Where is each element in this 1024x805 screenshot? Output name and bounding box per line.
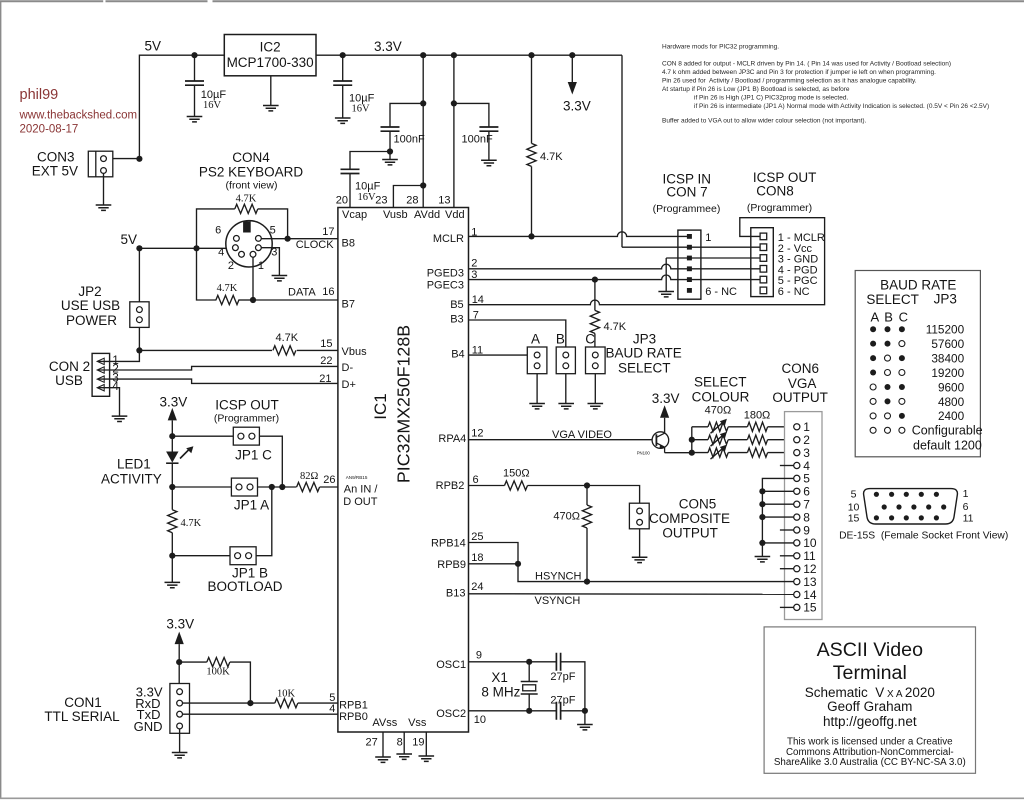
svg-text:(Programmer): (Programmer) — [214, 413, 279, 425]
svg-text:8: 8 — [397, 737, 403, 749]
node 3.3V colour label — [652, 391, 680, 406]
svg-text:MCLR: MCLR — [433, 233, 464, 245]
svg-text:IC1: IC1 — [371, 393, 390, 419]
label LED1 — [117, 456, 151, 471]
svg-text:4.7K: 4.7K — [540, 151, 563, 163]
svg-text:82Ω: 82Ω — [300, 471, 319, 482]
svg-text:X1: X1 — [491, 670, 508, 685]
svg-text:GND: GND — [134, 719, 163, 734]
pin label CON1 GND — [134, 719, 163, 734]
table label default 1200 — [913, 439, 982, 453]
pin label AVss 27 — [366, 717, 398, 749]
svg-text:www.thebackshed.com: www.thebackshed.com — [19, 110, 138, 122]
svg-text:PS2 KEYBOARD: PS2 KEYBOARD — [199, 165, 304, 180]
label EXT 5V — [32, 163, 78, 178]
label 4.7K JP3C — [604, 321, 627, 333]
pin number DIN 2 — [228, 260, 234, 272]
wire RxD — [183, 702, 251, 704]
ground PS2 — [272, 276, 288, 281]
label 4.7K data — [217, 283, 238, 294]
label Programmee — [653, 203, 721, 215]
junction 3.3V at MCLR pullup — [528, 52, 534, 58]
junction colour row3 — [689, 450, 695, 456]
pin number CON2-4 — [112, 381, 119, 393]
wire RPB14 hsync — [469, 543, 794, 582]
label CON 7 — [666, 184, 707, 199]
junction RxD — [247, 700, 253, 706]
ground JP3B — [558, 404, 574, 409]
label ACTIVITY — [101, 471, 162, 486]
wire to ground 100nF AVdd — [389, 152, 391, 160]
svg-text:10: 10 — [474, 714, 486, 726]
svg-text:POWER: POWER — [66, 313, 117, 328]
svg-text:B5: B5 — [450, 299, 463, 311]
svg-text:B4: B4 — [451, 349, 464, 361]
svg-text:CLOCK: CLOCK — [296, 239, 335, 251]
pin label B8 — [342, 238, 355, 250]
connector CON5 composite — [629, 503, 649, 529]
title license line1 — [787, 737, 953, 748]
svg-text:28: 28 — [406, 195, 418, 207]
wire JP1C to pin26 node — [259, 436, 282, 487]
ground Vss pin 8 — [396, 754, 412, 759]
ground CON2 — [112, 416, 128, 421]
pin label Vss 8 — [397, 717, 427, 749]
label 100K — [206, 667, 230, 678]
label 16V input — [203, 100, 222, 111]
wire CON2 pin4 ground — [98, 388, 120, 416]
wire DIN pin3 ground — [261, 248, 279, 276]
connector CON6 VGA pins — [794, 420, 817, 615]
label 16V output — [352, 104, 371, 115]
svg-text:CON3: CON3 — [37, 150, 75, 165]
junction VGA gnd 10 — [759, 540, 765, 546]
label 4.7K Vbus — [276, 332, 299, 344]
junction composite — [584, 482, 590, 488]
label 10uF Vcap — [355, 181, 381, 193]
svg-text:4.7K: 4.7K — [276, 332, 299, 344]
wire to JP1C — [172, 435, 233, 437]
svg-text:6: 6 — [803, 485, 810, 499]
wire CON2 pin1 to Vbus node — [98, 350, 139, 361]
pin label D+ 21 — [319, 373, 356, 391]
power 3.3V arrow colour — [660, 405, 669, 433]
label COLOUR — [692, 389, 750, 404]
pin label B7 — [342, 299, 355, 311]
table baud rows — [870, 323, 983, 438]
svg-text:4: 4 — [803, 459, 810, 473]
label CLOCK — [296, 239, 335, 251]
wire OSC2 — [469, 710, 557, 712]
wire B3 to JP3B — [469, 320, 566, 347]
svg-text:11: 11 — [963, 513, 974, 525]
pin label B5 14 — [450, 294, 484, 311]
pin number DE15 1 — [963, 488, 969, 500]
label PIC32MX250F128B (rotated) — [394, 325, 414, 483]
svg-text:100nF: 100nF — [394, 134, 425, 146]
svg-text:180Ω: 180Ω — [744, 410, 771, 422]
svg-text:JP3: JP3 — [934, 291, 957, 306]
resistor 4.7K MCLR pullup — [527, 55, 536, 236]
pin label B4 11 — [451, 345, 483, 361]
junction data — [250, 297, 256, 303]
junction 5V at input cap — [191, 52, 197, 58]
svg-text:27: 27 — [366, 737, 378, 749]
svg-text:4: 4 — [329, 703, 335, 715]
junction OSC1 — [526, 659, 532, 665]
svg-text:24: 24 — [471, 581, 483, 593]
svg-text:B8: B8 — [342, 238, 355, 250]
label TTL SERIAL — [44, 709, 120, 724]
wire OSC1 — [469, 661, 557, 663]
wire MCLR to CON7 — [469, 232, 688, 237]
label SELECT jp3 — [618, 361, 671, 376]
svg-text:PN100: PN100 — [637, 451, 651, 456]
ground output cap — [335, 118, 351, 123]
wire PGD to CON8 pin4 — [469, 264, 761, 269]
label HSYNCH — [535, 570, 582, 582]
svg-text:AN9/RB15: AN9/RB15 — [346, 475, 368, 480]
label PS2 KEYBOARD — [199, 165, 304, 180]
label OUTPUT composite — [662, 526, 718, 541]
wire to JP1B — [172, 555, 230, 557]
wire JP3B ground — [565, 374, 567, 404]
svg-text:RPB9: RPB9 — [437, 559, 466, 571]
svg-text:SELECT: SELECT — [618, 361, 671, 376]
svg-text:RPB2: RPB2 — [436, 480, 465, 492]
svg-text:5: 5 — [803, 472, 810, 486]
resistor 470ohm+180ohm colour row 2 — [692, 432, 794, 447]
author date 2020-08-17 — [20, 124, 79, 136]
wire PGC to CON8 pin5 — [469, 275, 761, 280]
svg-text:RPB14: RPB14 — [431, 537, 466, 549]
label USB — [55, 373, 83, 388]
svg-text:1: 1 — [258, 260, 264, 272]
note hardware mods text — [662, 44, 989, 125]
wire VGA ground bus — [762, 478, 793, 556]
svg-text:VSYNCH: VSYNCH — [535, 595, 581, 607]
junction PGC to JP3C — [592, 277, 598, 283]
wire VGA pin11 stub — [780, 555, 794, 557]
wire colour bus vertical — [665, 427, 692, 453]
label 82ohm — [300, 471, 319, 482]
svg-text:BAUD RATE: BAUD RATE — [880, 277, 956, 292]
wire VGA pin9 stub — [780, 529, 794, 531]
svg-text:57600: 57600 — [931, 337, 964, 351]
table BAUD RATE box — [855, 271, 980, 457]
label CON5 — [679, 496, 717, 511]
label CON3 — [37, 150, 75, 165]
junction 5V pullup node — [193, 245, 199, 251]
svg-text:5: 5 — [270, 224, 276, 236]
svg-text:JP1 A: JP1 A — [234, 498, 269, 513]
svg-text:Geoff Graham: Geoff Graham — [827, 699, 912, 714]
svg-text:22: 22 — [320, 355, 332, 367]
resistor 150ohm — [505, 481, 528, 490]
svg-text:1: 1 — [963, 488, 969, 500]
svg-text:1: 1 — [803, 420, 810, 434]
label 8 MHz — [481, 684, 520, 699]
junction JP1A node — [169, 484, 175, 490]
ground CON5 — [632, 557, 648, 562]
svg-text:Vcap: Vcap — [342, 209, 367, 221]
svg-text:2400: 2400 — [938, 409, 965, 423]
resistor 470ohm+180ohm colour row 3 — [692, 445, 794, 460]
pin label CON1 TxD — [137, 707, 161, 722]
wire CLOCK (B8 pin 17) — [261, 238, 338, 240]
svg-text:10µF: 10µF — [355, 181, 381, 193]
junction JP1C node — [169, 433, 175, 439]
svg-text:17: 17 — [322, 226, 334, 238]
svg-text:5: 5 — [851, 489, 857, 501]
junction Vbus node — [136, 347, 142, 353]
wire to JP1A — [172, 486, 231, 488]
pin label B13 24 — [446, 581, 484, 599]
connector CON1 — [170, 684, 190, 734]
capacitor 100nF AVdd — [381, 103, 424, 151]
capacitor 10uF output — [333, 55, 352, 118]
svg-text:4.7K: 4.7K — [236, 194, 257, 205]
svg-text:CON 2: CON 2 — [49, 359, 90, 374]
pin number DIN 5 — [270, 224, 276, 236]
title license line3 — [774, 757, 966, 768]
pin number 16 — [322, 286, 334, 298]
svg-text:USE USB: USE USB — [61, 298, 120, 313]
junction VGA gnd 8 — [759, 514, 765, 520]
svg-text:3.3V: 3.3V — [652, 391, 680, 406]
svg-text:(Programmer): (Programmer) — [747, 202, 812, 214]
wire AVdd supply — [422, 55, 424, 207]
svg-text:2020-08-17: 2020-08-17 — [20, 124, 79, 136]
label 4.7K MCLR pullup — [540, 151, 563, 163]
junction VGA gnd 7 — [759, 501, 765, 507]
svg-text:PIC32MX250F128B: PIC32MX250F128B — [394, 325, 414, 483]
pin label RPB1 5 — [329, 692, 368, 711]
svg-text:BAUD RATE: BAUD RATE — [605, 346, 681, 361]
svg-text:IC2: IC2 — [260, 40, 281, 55]
label JP1 C — [235, 447, 272, 462]
label ICSP OUT — [753, 170, 817, 185]
svg-text:CON8: CON8 — [756, 184, 794, 199]
svg-text:C: C — [899, 310, 908, 325]
svg-text:OSC2: OSC2 — [436, 708, 466, 720]
svg-text:16V: 16V — [203, 100, 222, 111]
svg-text:OUTPUT: OUTPUT — [772, 390, 828, 405]
pin number CON2-1 — [112, 355, 118, 367]
svg-text:23: 23 — [375, 195, 387, 207]
resistor 10K — [250, 699, 338, 708]
node 3.3V serial label — [166, 617, 194, 632]
label jumper C — [585, 331, 595, 346]
svg-text:9: 9 — [803, 523, 810, 537]
svg-text:phil99: phil99 — [20, 87, 59, 103]
jumper JP1 C — [233, 427, 259, 445]
svg-text:2: 2 — [803, 433, 810, 447]
pin label D- 22 — [320, 355, 353, 374]
title ASCII Video — [817, 639, 923, 661]
pin number DE15 15 — [848, 513, 860, 525]
node 3.3V LED label — [160, 395, 188, 410]
svg-text:16: 16 — [322, 286, 334, 298]
jumper JP3 B — [556, 347, 575, 374]
wire B13 vsync — [469, 593, 794, 596]
connector DE-15S pins — [874, 492, 947, 521]
junction 3.3V at AVdd — [420, 52, 426, 58]
pin label RPA4 12 — [438, 427, 483, 445]
svg-text:JP1 C: JP1 C — [235, 447, 272, 462]
capacitor 10uF input — [185, 55, 204, 116]
svg-text:Vss: Vss — [408, 717, 427, 729]
jumper JP3 C — [586, 347, 606, 374]
wire CON1 3.3V pin — [178, 662, 180, 688]
ground OSC — [577, 725, 593, 730]
ground JP3A — [529, 404, 545, 409]
junction 100nF-Vcap ground node — [387, 148, 393, 154]
label CON6 — [782, 361, 820, 376]
junction 3.3V arrow — [569, 52, 575, 58]
wire JP2 to Vbus node — [138, 327, 140, 350]
svg-text:3.3V: 3.3V — [160, 395, 188, 410]
pin number CON2-3 — [112, 373, 118, 385]
wire LED ground — [171, 556, 173, 583]
pin label CON1 3.3V — [136, 685, 163, 700]
title box — [764, 627, 975, 773]
crystal X1 8MHz — [521, 662, 538, 711]
svg-text:LED1: LED1 — [117, 456, 151, 471]
svg-text:3.3V: 3.3V — [563, 99, 591, 114]
svg-text:14: 14 — [803, 588, 817, 602]
label IC1 (rotated) — [371, 393, 390, 419]
label COMPOSITE — [649, 511, 730, 526]
label ICSP IN — [662, 171, 711, 186]
pin number DIN 4 — [218, 247, 224, 259]
label 180ohm — [744, 410, 771, 422]
svg-text:D-: D- — [342, 362, 354, 374]
label Programmer — [747, 202, 812, 214]
resistor 470ohm+180ohm colour row 1 — [692, 419, 794, 434]
svg-text:2: 2 — [471, 257, 477, 269]
wire TxD — [183, 713, 338, 715]
resistor 4.7K JP3C — [590, 280, 599, 347]
svg-text:5: 5 — [329, 692, 335, 704]
title schematic line — [805, 685, 935, 700]
pin number DE15 6 — [963, 501, 969, 513]
svg-text:http://geoffg.net: http://geoffg.net — [823, 714, 917, 729]
capacitor 10uF Vcap — [341, 152, 391, 208]
pin label CON8 3-GND — [778, 254, 818, 266]
label 27pF OSC1 — [550, 671, 575, 683]
label 27pF OSC2 — [550, 694, 575, 706]
wire CON3 ground pin — [103, 173, 105, 205]
pin label RPB2 6 — [436, 474, 479, 492]
svg-text:At startup if Pin 26 is Low (J: At startup if Pin 26 is Low (JP1 B) Boot… — [662, 86, 850, 93]
author name phil99 — [20, 87, 59, 103]
pin label 19 — [412, 737, 424, 749]
svg-text:EXT 5V: EXT 5V — [32, 163, 78, 178]
svg-text:COMPOSITE: COMPOSITE — [649, 511, 730, 526]
label 4.7K LED — [181, 518, 202, 529]
svg-text:7: 7 — [803, 498, 810, 512]
junction serial 3.3V — [176, 659, 182, 665]
svg-text:470Ω: 470Ω — [553, 511, 580, 523]
pin label PGEC3 3 — [427, 269, 478, 292]
connector CON8 ICSP OUT — [751, 228, 774, 297]
ground 100nF AVdd — [382, 160, 398, 165]
label 100nF AVdd — [394, 134, 425, 146]
label CON4 — [232, 150, 270, 165]
ic IC1 PIC32MX250F128B box — [338, 208, 469, 733]
wire GND CON7/CON8 pin3 — [666, 258, 760, 292]
svg-text:470Ω: 470Ω — [705, 405, 732, 417]
svg-text:4.7K: 4.7K — [181, 518, 202, 529]
svg-text:3.3V: 3.3V — [166, 617, 194, 632]
transistor Q1 PN100 — [652, 432, 669, 453]
ground CON3 — [96, 205, 112, 210]
label JP1 A — [234, 498, 269, 513]
pin number DE15 10 — [848, 502, 860, 514]
label front view — [226, 180, 278, 192]
svg-text:4: 4 — [218, 247, 224, 259]
pin label CON1 RxD — [135, 696, 160, 711]
connector CON6 VGA box — [785, 412, 823, 620]
label CON1 — [64, 695, 102, 710]
wire Vss pin 8 — [403, 732, 405, 754]
svg-text:16V: 16V — [358, 192, 377, 203]
svg-text:6: 6 — [215, 224, 221, 236]
svg-text:Pin 26 used for Activity / Bo: Pin 26 used for Activity / Bootload / pr… — [662, 78, 917, 85]
svg-text:B3: B3 — [450, 314, 463, 326]
svg-text:19: 19 — [412, 737, 424, 749]
svg-text:13: 13 — [803, 575, 817, 589]
svg-text:4.7K: 4.7K — [217, 283, 238, 294]
svg-text:SELECT: SELECT — [866, 292, 919, 307]
label 16V Vcap — [358, 192, 377, 203]
svg-text:PGEC3: PGEC3 — [427, 280, 464, 292]
svg-text:10K: 10K — [277, 689, 296, 700]
svg-text:SELECT: SELECT — [694, 375, 747, 390]
svg-text:8 MHz: 8 MHz — [481, 684, 520, 699]
wire 3.3V rail — [316, 54, 622, 56]
svg-text:D+: D+ — [342, 379, 356, 391]
pin number CON2-2 — [112, 364, 118, 376]
capacitor 27pF OSC1 — [556, 653, 585, 711]
svg-text:MCP1700-330: MCP1700-330 — [227, 55, 314, 70]
svg-text:JP3: JP3 — [633, 331, 656, 346]
svg-text:12: 12 — [471, 427, 483, 439]
pin label RPB14 25 — [431, 531, 484, 550]
wire RPB9 hsync — [469, 563, 519, 565]
svg-text:6: 6 — [963, 501, 969, 513]
svg-text:11: 11 — [803, 549, 816, 563]
svg-text:HSYNCH: HSYNCH — [535, 570, 582, 582]
svg-text:RPA4: RPA4 — [438, 433, 466, 445]
page border top — [0, 0, 1024, 2]
junction CON3 5V — [136, 156, 142, 162]
label BAUD RATE jp3 — [605, 346, 681, 361]
pin label RPB9 18 — [437, 552, 483, 571]
wire JP3A ground — [536, 374, 538, 404]
wire 150ohm to CON5 — [528, 486, 640, 504]
pin number CON7 1 — [705, 232, 711, 244]
svg-text:12: 12 — [803, 562, 817, 576]
label DATA — [288, 287, 316, 299]
title url — [823, 714, 917, 729]
svg-text:CON 8 added for output - MCLR: CON 8 added for output - MCLR driven by … — [662, 61, 951, 68]
svg-text:COLOUR: COLOUR — [692, 389, 750, 404]
svg-text:4.7 k ohm added between JP3C a: 4.7 k ohm added between JP3C and Pin 3 f… — [662, 69, 936, 76]
svg-text:100K: 100K — [206, 667, 230, 678]
svg-text:RPB0: RPB0 — [339, 711, 368, 723]
